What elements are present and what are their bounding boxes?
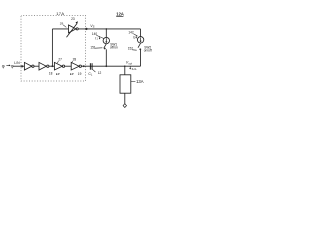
wire input: [14, 65, 25, 67]
svg-text:out: out: [129, 62, 133, 65]
node junction load top: [124, 65, 126, 67]
svg-text:EP: EP: [56, 72, 60, 76]
switch SW1: [104, 44, 107, 49]
variable arrow: [67, 24, 77, 38]
svg-text:19: 19: [78, 72, 82, 76]
svg-text:S: S: [93, 25, 95, 29]
svg-text:L: L: [91, 74, 93, 77]
wire load bottom: [124, 93, 126, 104]
node junction branch1 top: [106, 28, 108, 30]
label 12A (figure variant label): [116, 12, 124, 17]
wire amp feed horizontal: [52, 28, 68, 30]
wire top rail Vs: [78, 28, 140, 30]
wire switch1 to rail: [105, 49, 107, 66]
label Vs: [90, 24, 95, 29]
wire: [65, 65, 72, 67]
label IL arrow: [129, 66, 131, 68]
terminal diamond: [123, 104, 126, 108]
svg-text:18: 18: [49, 71, 53, 75]
svg-text:13A: 13A: [136, 79, 144, 84]
svg-text:142: 142: [128, 30, 134, 34]
capacitor CL plates: [90, 63, 93, 69]
current source 142 circle: [137, 37, 143, 43]
svg-text:φ: φ: [2, 63, 5, 68]
svg-text:L/N: L/N: [14, 61, 20, 65]
resistor load 13A: [120, 75, 131, 93]
wire: [49, 65, 54, 67]
wire: [34, 65, 39, 67]
svg-text:151: 151: [90, 46, 96, 50]
node junction branch1 bottom: [105, 65, 107, 67]
svg-text:17A: 17A: [56, 11, 64, 16]
wire switch2 to rail corner: [140, 49, 142, 66]
node 18 junction: [51, 65, 53, 67]
wire output rail: [82, 65, 141, 67]
label 13A: [131, 81, 135, 83]
inverter 28: [71, 62, 79, 70]
svg-text:1: 1: [97, 39, 99, 41]
inverter 27: [54, 62, 62, 70]
wire amp feed vertical: [51, 29, 53, 66]
svg-text:23: 23: [71, 17, 75, 21]
inverter 18a: [24, 62, 31, 70]
wire load stub: [124, 66, 126, 75]
svg-text:2: 2: [134, 38, 136, 40]
current source 140 circle: [103, 37, 109, 43]
dashed box 17A: [21, 15, 86, 81]
svg-text:12A: 12A: [116, 12, 124, 17]
svg-text:27: 27: [58, 58, 62, 62]
variable amplifier 23: [69, 25, 77, 33]
label CL: [88, 72, 93, 77]
inverter 18b: [39, 62, 46, 70]
label Vout: [126, 61, 132, 66]
svg-text:28: 28: [73, 58, 77, 62]
wire branch2 down: [140, 29, 142, 37]
svg-text:EP: EP: [70, 72, 74, 76]
svg-text:12: 12: [98, 71, 102, 75]
svg-text:on/off: on/off: [144, 49, 152, 53]
svg-text:off/on: off/on: [110, 45, 118, 49]
svg-text:152: 152: [128, 47, 134, 51]
svg-text:IL/L: IL/L: [132, 67, 137, 71]
wire branch1 down: [105, 29, 107, 38]
svg-text:29: 29: [60, 21, 64, 25]
switch SW2: [138, 43, 141, 48]
